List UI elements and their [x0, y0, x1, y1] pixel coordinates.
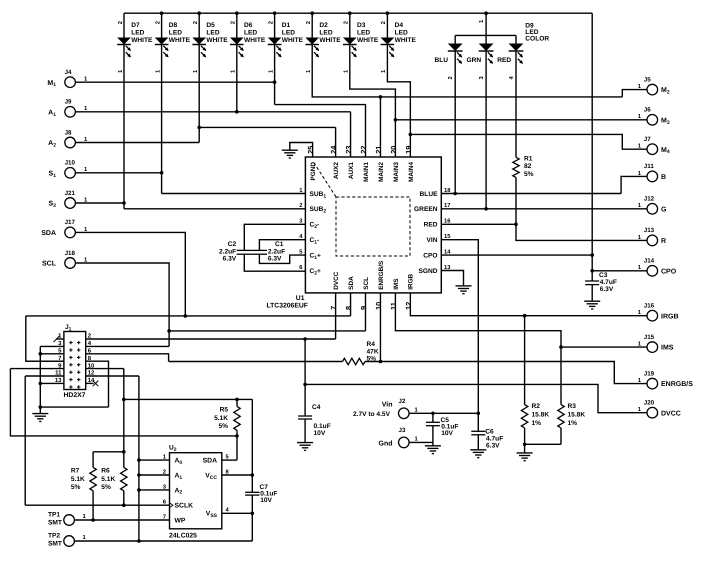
- svg-text:TP1: TP1: [48, 512, 60, 519]
- svg-text:PGND: PGND: [310, 162, 317, 181]
- wire J1 pin4 SCL row: [86, 345, 169, 347]
- svg-text:DVCC: DVCC: [661, 410, 681, 417]
- svg-text:2: 2: [447, 76, 454, 79]
- svg-text:J18: J18: [65, 250, 76, 257]
- svg-text:WHITE: WHITE: [244, 37, 266, 44]
- svg-text:D2: D2: [319, 22, 328, 29]
- svg-text:R7: R7: [71, 468, 80, 475]
- wire D1 cathode to MAIN1 / M1: [274, 45, 276, 105]
- svg-text:B: B: [661, 174, 666, 181]
- capacitor C1 2.2uF 6.3V: [259, 240, 305, 251]
- svg-text:2: 2: [230, 21, 237, 24]
- wire J1 pin14 stub (NC): [86, 382, 94, 384]
- wire D4 cathode to MAIN4 / M4: [387, 45, 410, 158]
- connector J2 Vin: [399, 408, 410, 419]
- svg-text:R: R: [661, 238, 666, 245]
- svg-text:R3: R3: [568, 403, 577, 410]
- wire U2 A1: [139, 474, 170, 476]
- svg-text:COLOR: COLOR: [525, 35, 549, 42]
- svg-text:MAIN4: MAIN4: [408, 162, 415, 182]
- connector J15 IMS: [647, 342, 658, 353]
- svg-text:ENRGB/S: ENRGB/S: [378, 260, 385, 290]
- svg-text:J11: J11: [644, 163, 655, 170]
- svg-text:C4: C4: [312, 404, 321, 411]
- svg-text:SCL: SCL: [363, 277, 370, 290]
- wire ENRGB/S net with R4: [379, 293, 381, 362]
- wire BLUE row to J11: [441, 193, 621, 195]
- wire D6 cathode to AUX1 / A1: [236, 45, 238, 112]
- wire VIN pin to supply: [441, 240, 478, 414]
- svg-text:R4: R4: [367, 341, 376, 348]
- svg-text:LED: LED: [206, 30, 219, 37]
- LED D8 WHITE: [161, 13, 163, 37]
- wire A1 row: [75, 111, 350, 113]
- svg-text:2: 2: [192, 21, 199, 24]
- svg-text:J5: J5: [644, 76, 651, 83]
- svg-text:1%: 1%: [532, 420, 542, 427]
- svg-text:WHITE: WHITE: [357, 37, 379, 44]
- svg-text:Vin: Vin: [382, 401, 393, 409]
- svg-text:10V: 10V: [441, 430, 453, 437]
- svg-text:GREEN: GREEN: [414, 206, 438, 213]
- op-amp U1 LTC3206EUF body: [305, 157, 441, 293]
- svg-text:2: 2: [343, 21, 350, 24]
- svg-text:21: 21: [374, 146, 383, 154]
- svg-text:47K: 47K: [367, 348, 379, 355]
- svg-text:SDA: SDA: [348, 276, 355, 290]
- svg-text:U1: U1: [296, 295, 305, 302]
- wire J1 pin10 DVCC column: [86, 368, 124, 370]
- svg-text:J21: J21: [65, 190, 76, 197]
- svg-text:IMS: IMS: [393, 278, 400, 290]
- ground at C4: [297, 443, 313, 451]
- svg-text:1%: 1%: [568, 420, 578, 427]
- svg-text:J9: J9: [65, 99, 72, 106]
- svg-text:5.1K: 5.1K: [101, 476, 115, 483]
- ground at C6: [470, 450, 486, 458]
- capacitor C7 0.1uF 10V: [245, 492, 259, 495]
- capacitor C4 0.1uF 10V: [298, 416, 312, 419]
- svg-text:22: 22: [359, 146, 368, 154]
- svg-text:WP: WP: [175, 517, 186, 524]
- svg-text:TP2: TP2: [48, 533, 60, 540]
- svg-text:SGND: SGND: [418, 268, 437, 275]
- wire IRGB net: [410, 293, 647, 316]
- svg-text:5%: 5%: [524, 171, 534, 178]
- svg-text:9: 9: [359, 306, 368, 310]
- wire D2 cathode to MAIN2 / M2: [312, 45, 622, 97]
- wire U2 SCLK from J1 pin11: [25, 504, 169, 506]
- wire U2 A0: [139, 459, 170, 461]
- svg-text:6.3V: 6.3V: [486, 442, 500, 449]
- wire BLU cathode: [454, 51, 456, 194]
- wire S2 row: [75, 202, 124, 204]
- connector J13 R: [647, 235, 658, 246]
- wire D5 cathode to AUX2 / A2: [198, 45, 200, 143]
- LED D3 WHITE: [349, 13, 351, 37]
- svg-text:2: 2: [299, 202, 302, 209]
- LED D5 WHITE: [198, 13, 200, 37]
- capacitor C6 4.7uF 6.3V: [477, 413, 479, 431]
- connector J5 M2: [647, 84, 658, 95]
- svg-text:2: 2: [117, 21, 124, 24]
- svg-text:J19: J19: [644, 370, 655, 377]
- svg-text:6.3V: 6.3V: [600, 286, 614, 293]
- connector J6 M3: [647, 115, 658, 126]
- resistor R5 5.1K 5%: [236, 399, 238, 406]
- svg-text:15.8K: 15.8K: [568, 412, 586, 419]
- svg-text:J7: J7: [644, 136, 651, 143]
- svg-text:WHITE: WHITE: [169, 37, 191, 44]
- svg-text:D3: D3: [357, 22, 366, 29]
- svg-text:CPO: CPO: [423, 253, 437, 260]
- connector J16 IRGB: [647, 310, 658, 321]
- wire TP2 bus: [74, 540, 252, 542]
- wire U2 Vcc row: [222, 474, 253, 476]
- capacitor C5 0.1uF 10V: [432, 413, 434, 422]
- wire J1 pin6 ENRGB/S row: [86, 354, 169, 362]
- LED D1 WHITE: [274, 13, 276, 37]
- svg-text:D7: D7: [131, 22, 140, 29]
- svg-text:WHITE: WHITE: [395, 37, 417, 44]
- wire CPO rail vertical: [591, 13, 593, 281]
- svg-text:RED: RED: [424, 222, 438, 229]
- capacitor C3 4.7uF 6.3V: [585, 281, 599, 285]
- svg-text:MAIN2: MAIN2: [378, 162, 385, 182]
- wire D8 cathode to SUB1: [161, 45, 163, 194]
- svg-text:D4: D4: [395, 22, 404, 29]
- svg-text:LED: LED: [395, 30, 408, 37]
- LED D9 COLOR (BLU GRN RED): [485, 13, 487, 35]
- svg-text:J13: J13: [644, 227, 655, 234]
- svg-text:J15: J15: [644, 334, 655, 341]
- connector TP1 SMT: [64, 515, 75, 526]
- svg-text:WHITE: WHITE: [131, 37, 153, 44]
- connector J18 SCL: [65, 258, 76, 269]
- wire J1 pin1 stub (NC): [56, 338, 64, 340]
- svg-text:R6: R6: [101, 468, 110, 475]
- connector J10 S1: [65, 168, 76, 179]
- svg-text:IRGB: IRGB: [661, 313, 679, 320]
- capacitor C2 2.2uF 6.3V: [244, 224, 305, 250]
- wire M1 row: [75, 81, 274, 83]
- svg-text:D1: D1: [282, 22, 291, 29]
- svg-text:J16: J16: [644, 303, 655, 310]
- svg-text:IRGB: IRGB: [408, 273, 415, 289]
- svg-text:24: 24: [329, 145, 338, 154]
- svg-text:J6: J6: [644, 107, 651, 114]
- wire LED anode rail / CPO net: [124, 12, 592, 14]
- svg-text:SCLK: SCLK: [175, 503, 194, 510]
- svg-text:J17: J17: [65, 219, 76, 226]
- svg-text:2: 2: [267, 21, 274, 24]
- connector J9 A1: [65, 107, 76, 118]
- svg-text:J8: J8: [65, 129, 72, 136]
- wire GREEN row to J12: [441, 208, 647, 210]
- wire D7 cathode to SUB2: [123, 45, 125, 209]
- svg-text:4.7uF: 4.7uF: [600, 279, 617, 286]
- wire ENRGB/S to J19: [365, 362, 647, 384]
- connector J8 A2: [65, 137, 76, 148]
- connector TP2 SMT: [64, 536, 75, 547]
- resistor R1 82 5%: [513, 157, 519, 177]
- wire Gnd row: [409, 441, 433, 443]
- wire J1 pin7 SDA: [26, 360, 64, 362]
- wire J1 pin9 EESDA: [10, 368, 64, 370]
- svg-text:2: 2: [305, 21, 312, 24]
- svg-text:D8: D8: [169, 22, 178, 29]
- svg-text:11: 11: [389, 302, 398, 310]
- connector J4 M1: [65, 77, 76, 88]
- connector J19 ENRGB/S: [647, 378, 658, 389]
- svg-text:5.1K: 5.1K: [214, 415, 228, 422]
- svg-text:R5: R5: [220, 407, 229, 414]
- connector J11 B: [647, 171, 658, 182]
- resistor R6 5.1K 5%: [121, 467, 127, 490]
- wire SCL from J18: [75, 263, 169, 346]
- svg-text:G: G: [661, 206, 667, 213]
- ground at C5/J3: [425, 446, 441, 454]
- svg-text:WHITE: WHITE: [319, 37, 341, 44]
- wire DVCC branch to C4 and J20: [304, 339, 306, 416]
- wire SGND pin 13 to ground: [441, 271, 463, 286]
- svg-text:5.1K: 5.1K: [71, 476, 85, 483]
- svg-text:LED: LED: [282, 30, 295, 37]
- wire S1 row: [75, 172, 161, 174]
- wire A2 row: [75, 142, 199, 144]
- wire GND link to J1 pin8: [40, 406, 108, 408]
- svg-text:2.2uF: 2.2uF: [219, 248, 236, 255]
- IC U2 24LC025 body: [170, 453, 222, 529]
- svg-text:ENRGB/S: ENRGB/S: [661, 380, 693, 388]
- ground at R2/R3: [517, 453, 533, 461]
- connector J1 HD2X7: [64, 332, 86, 390]
- ground at U1 PGND pin 25: [290, 143, 313, 158]
- svg-text:20: 20: [389, 146, 398, 154]
- svg-text:WHITE: WHITE: [282, 37, 304, 44]
- svg-text:DVCC: DVCC: [333, 271, 340, 289]
- resistor R7 5.1K 5%: [93, 451, 124, 453]
- svg-text:SCL: SCL: [42, 261, 57, 268]
- wire DVCC pin7 to J1 pin2: [335, 293, 337, 339]
- svg-text:Gnd: Gnd: [379, 440, 393, 448]
- svg-text:15.8K: 15.8K: [532, 412, 550, 419]
- wire U2 WP / TP1 row: [74, 519, 169, 521]
- svg-text:82: 82: [524, 163, 532, 170]
- svg-text:D6: D6: [244, 22, 253, 29]
- svg-text:25: 25: [306, 146, 315, 154]
- svg-text:12: 12: [404, 302, 413, 310]
- svg-text:J4: J4: [65, 69, 72, 76]
- svg-text:2: 2: [380, 21, 387, 24]
- svg-text:5%: 5%: [218, 423, 228, 430]
- svg-text:5%: 5%: [101, 484, 111, 491]
- LED D7 WHITE: [123, 13, 125, 37]
- connector J20 DVCC: [647, 407, 658, 418]
- wire IMS net: [395, 293, 561, 347]
- svg-text:7: 7: [329, 306, 338, 310]
- svg-text:8: 8: [344, 306, 353, 310]
- svg-text:VIN: VIN: [427, 237, 438, 244]
- svg-text:SDA: SDA: [41, 230, 56, 237]
- svg-text:RED: RED: [497, 57, 511, 64]
- svg-text:R2: R2: [532, 403, 541, 410]
- wire J1 pin5 GND: [40, 353, 64, 355]
- svg-text:2.7V to 4.5V: 2.7V to 4.5V: [353, 411, 391, 418]
- svg-text:J3: J3: [399, 427, 406, 434]
- wire U2 A2: [139, 489, 170, 491]
- connector J3 Gnd: [399, 437, 410, 448]
- svg-text:10: 10: [374, 302, 383, 310]
- resistor R2 15.8K 1%: [524, 316, 526, 405]
- wire J1 pin11 EECLK: [25, 375, 64, 377]
- wire J14 CPO row: [592, 270, 647, 272]
- connector J7 M4: [647, 144, 658, 155]
- ground at J1: [39, 407, 41, 414]
- svg-text:MAIN3: MAIN3: [393, 162, 400, 182]
- ground at C3: [584, 301, 600, 309]
- connector J17 SDA: [65, 227, 76, 238]
- wire DVCC bus to U2 Vcc: [124, 398, 253, 400]
- svg-text:2: 2: [154, 21, 161, 24]
- svg-text:J2: J2: [399, 398, 406, 405]
- svg-text:SDA: SDA: [203, 458, 217, 465]
- svg-text:MAIN1: MAIN1: [363, 162, 370, 182]
- svg-text:19: 19: [404, 146, 413, 154]
- svg-text:2.2uF: 2.2uF: [268, 248, 285, 255]
- svg-text:LED: LED: [131, 30, 144, 37]
- wire J1 pin12 GND column: [86, 375, 139, 377]
- svg-text:D5: D5: [206, 22, 215, 29]
- wire GRN cathode: [485, 51, 487, 209]
- connector J12 G: [647, 204, 658, 215]
- svg-text:10V: 10V: [260, 497, 272, 504]
- svg-text:LED: LED: [357, 30, 370, 37]
- wire J1 pin13 GND: [40, 382, 64, 384]
- svg-text:LED: LED: [169, 30, 182, 37]
- svg-text:SMT: SMT: [48, 519, 62, 526]
- svg-text:HD2X7: HD2X7: [64, 392, 86, 399]
- svg-text:GRN: GRN: [467, 57, 482, 64]
- resistor R4 47K 5%: [343, 358, 366, 364]
- svg-text:6.3V: 6.3V: [268, 256, 282, 263]
- svg-text:BLUE: BLUE: [420, 191, 439, 198]
- svg-text:J14: J14: [644, 258, 655, 265]
- resistor R3 15.8K 1%: [560, 347, 562, 405]
- wire RED row to J13: [441, 223, 516, 225]
- svg-text:LED: LED: [244, 30, 257, 37]
- svg-text:C6: C6: [485, 429, 494, 436]
- svg-text:IMS: IMS: [661, 345, 674, 352]
- wire J1 pin3 GND: [40, 345, 64, 347]
- LED D4 WHITE: [386, 13, 388, 37]
- svg-text:SMT: SMT: [48, 540, 62, 547]
- connector J21 S2: [65, 198, 76, 209]
- svg-text:C2: C2: [228, 241, 237, 248]
- svg-text:AUX2: AUX2: [333, 162, 340, 179]
- svg-text:C1: C1: [275, 241, 284, 248]
- svg-text:WHITE: WHITE: [206, 37, 228, 44]
- svg-text:5%: 5%: [71, 484, 81, 491]
- svg-text:23: 23: [344, 146, 353, 154]
- svg-text:LTC3206EUF: LTC3206EUF: [267, 303, 308, 310]
- svg-text:R1: R1: [524, 156, 533, 163]
- svg-text:24LC025: 24LC025: [169, 533, 197, 540]
- wire SDA from J17: [75, 232, 185, 316]
- LED D2 WHITE: [311, 13, 313, 37]
- wire D3 cathode to MAIN3 / M3: [350, 45, 396, 158]
- ground at SGND: [456, 286, 472, 294]
- wire RED cathode to R1: [515, 51, 517, 157]
- svg-text:J20: J20: [644, 400, 655, 407]
- svg-text:LED: LED: [319, 30, 332, 37]
- svg-text:10V: 10V: [314, 430, 326, 437]
- wire SDA bus: [26, 315, 351, 317]
- LED D6 WHITE: [236, 13, 238, 37]
- svg-text:CPO: CPO: [661, 268, 677, 275]
- connector J14 CPO: [647, 266, 658, 277]
- svg-text:AUX1: AUX1: [348, 162, 355, 179]
- svg-text:BLU: BLU: [434, 57, 448, 64]
- wire U2 Vss row: [222, 512, 253, 514]
- svg-text:J12: J12: [644, 196, 655, 203]
- wire U2 SDA row: [222, 459, 237, 461]
- wire SCL bus: [169, 330, 365, 332]
- svg-text:6.3V: 6.3V: [223, 256, 237, 263]
- svg-text:J10: J10: [65, 160, 76, 167]
- wire Vin row: [409, 412, 478, 414]
